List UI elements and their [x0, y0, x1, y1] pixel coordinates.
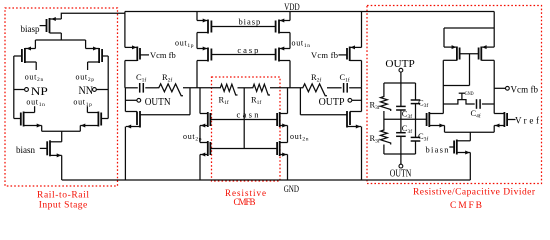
transistor NMOS pair right (input)	[100, 113, 102, 126]
wire diff pair tail	[445, 131, 495, 133]
node OUTN terminal	[125, 99, 137, 101]
svg-text:NN: NN	[79, 85, 94, 97]
svg-text:casn: casn	[237, 110, 260, 120]
node Vcm fb output (divider)	[494, 87, 505, 89]
svg-text:Input Stage: Input Stage	[39, 201, 88, 211]
wire PMOS pair tail	[35, 39, 85, 41]
svg-text:biasp: biasp	[21, 24, 40, 34]
transistor mirror PMOS right (divider)	[493, 28, 495, 47]
capacitor C3f right-lower	[411, 136, 421, 138]
capacitor C3f right-upper	[415, 83, 417, 100]
VDD rail	[125, 11, 494, 13]
transistor MN left diode NMOS	[125, 111, 137, 113]
svg-text:CMFB: CMFB	[450, 201, 482, 211]
svg-text:OUTP: OUTP	[319, 96, 345, 108]
transistor PMOS pair right (input)	[101, 49, 103, 62]
transistor cascode PMOS casp-right	[279, 48, 290, 50]
svg-text:OUTN: OUTN	[390, 169, 412, 180]
dashed box: resistive CMFB	[212, 77, 281, 181]
wire divider top bus	[384, 82, 416, 84]
wire biasp drain to pair tail	[60, 33, 62, 40]
GND rail	[62, 179, 471, 181]
transistor Vcm fb PMOS right	[361, 12, 363, 48]
wire NMOS pair tail	[42, 130, 81, 132]
transistor mirror PMOS left (divider)	[493, 12, 495, 29]
svg-text:NP: NP	[31, 84, 48, 98]
svg-text:Vcm fb: Vcm fb	[511, 84, 539, 94]
transistor NMOS pair left (input)	[20, 113, 22, 126]
transistor CMFB NMOS lower-left	[200, 142, 208, 144]
svg-text:biasn: biasn	[426, 145, 450, 155]
transistor divider biasn NMOS	[453, 141, 455, 154]
transistor biasn tail NMOS (input stage)	[46, 141, 48, 155]
capacitor C1f left	[139, 83, 141, 93]
transistor CMFB NMOS upper-left	[199, 88, 201, 114]
resistor R2f right	[301, 84, 327, 96]
node NP input terminal	[14, 89, 25, 91]
svg-text:VDD: VDD	[284, 3, 300, 13]
svg-text:casp: casp	[237, 45, 258, 55]
svg-text:biasp: biasp	[239, 16, 261, 26]
resistor R3f upper	[383, 83, 385, 95]
capacitor C3f mid-upper	[400, 83, 402, 106]
resistor R1f left	[219, 84, 238, 95]
wire biasp gate bus	[211, 26, 275, 28]
wire center tap	[243, 88, 245, 149]
node OUTN wire	[125, 87, 138, 89]
node NN input terminal	[96, 89, 108, 91]
svg-text:OUTN: OUTN	[145, 96, 171, 108]
transistor biasp tail PMOS (input stage)	[46, 19, 48, 32]
wire lower gate bus	[210, 148, 277, 150]
wire R1f to OUTP side	[270, 87, 301, 89]
wire divider bottom bus	[384, 153, 416, 155]
wire OUTN to CMFB box	[183, 87, 219, 89]
resistor R1f right	[251, 84, 270, 95]
ground symbol (divider)	[461, 93, 463, 99]
node OUTP terminal	[352, 99, 362, 101]
transistor Vcm fb PMOS left	[124, 12, 126, 48]
transistor cascode PMOS top-right (biasp)	[289, 12, 291, 21]
dashed box: rail-to-rail input stage	[5, 8, 118, 186]
wire divider mid bus	[384, 118, 427, 120]
node OUTN terminal (divider)	[400, 154, 402, 164]
wire mirror gate tie + diode connection	[460, 53, 479, 55]
svg-text:Vcm fb: Vcm fb	[311, 50, 338, 60]
svg-text:GND: GND	[465, 92, 474, 97]
resistor R3f lower	[381, 129, 391, 145]
wire biasp source to VDD	[61, 13, 125, 19]
svg-text:CMFB: CMFB	[234, 197, 256, 207]
svg-text:Vcm fb: Vcm fb	[150, 50, 176, 60]
svg-text:biasn: biasn	[16, 145, 35, 155]
transistor cascode PMOS top-left (biasp)	[196, 12, 198, 21]
wire OUTN vertical	[124, 88, 126, 112]
wire between R1f	[238, 87, 252, 89]
transistor CMFB NMOS lower-right	[280, 142, 288, 144]
transistor PMOS pair left (input)	[21, 49, 23, 62]
transistor cascode PMOS casp-left	[197, 48, 208, 50]
wire casp gate bus	[211, 54, 275, 56]
wire NP gate line	[13, 56, 15, 119]
transistor divider diff NMOS left	[426, 113, 428, 126]
capacitor C3f mid-lower	[396, 132, 406, 134]
wire NN gate line	[107, 56, 109, 119]
svg-text:Resistive/Capacitive Divider: Resistive/Capacitive Divider	[413, 188, 536, 198]
capacitor C1f right	[327, 87, 342, 89]
dashed box: resistive/capacitive divider CMFB	[367, 6, 542, 184]
resistor R2f left	[157, 84, 183, 96]
svg-text:GND: GND	[284, 185, 299, 195]
transistor CMFB NMOS upper-right	[287, 88, 289, 114]
transistor MN right diode NMOS	[361, 88, 363, 112]
wire biasn source to ground	[61, 155, 63, 180]
capacitor C4f with GND tap	[443, 100, 474, 104]
transistor divider diff NMOS right	[506, 113, 508, 126]
svg-text:Rail-to-Rail: Rail-to-Rail	[37, 191, 89, 201]
wire casn gate bus	[210, 119, 277, 121]
